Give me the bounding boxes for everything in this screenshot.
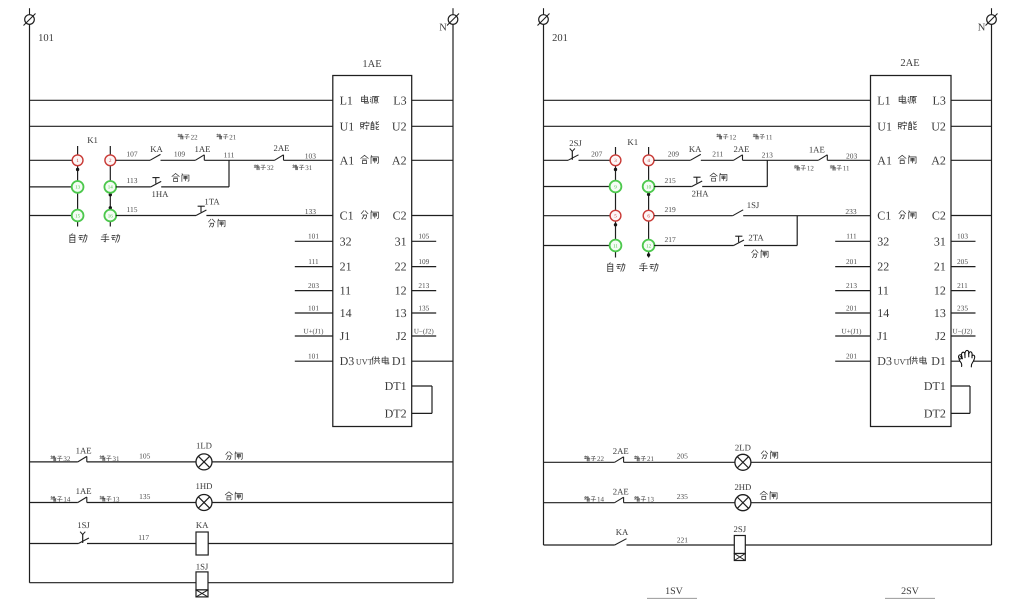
svg-text:U1: U1 bbox=[340, 119, 355, 133]
svg-text:1HA: 1HA bbox=[152, 189, 170, 199]
K1 contact 13 (green) bbox=[72, 181, 84, 193]
svg-text:A1: A1 bbox=[877, 153, 892, 167]
svg-text:J1: J1 bbox=[340, 329, 351, 343]
label 2AE contact right bbox=[734, 144, 750, 154]
svg-text:101: 101 bbox=[38, 33, 54, 44]
svg-text:16: 16 bbox=[108, 213, 114, 219]
label 1HA bbox=[152, 189, 170, 199]
svg-text:KA: KA bbox=[196, 520, 209, 530]
svg-text:15: 15 bbox=[75, 213, 81, 219]
contact 2AE aux (row A1) bbox=[275, 155, 284, 161]
svg-text:14: 14 bbox=[63, 496, 71, 504]
label 端子32 row A1 bbox=[254, 164, 274, 172]
terminal 201 supply bbox=[538, 8, 550, 25]
svg-text:13: 13 bbox=[934, 306, 946, 320]
label 105 rowA bbox=[139, 452, 151, 461]
bracket DT1-DT2 of 2AE bbox=[951, 386, 970, 413]
label 端子13 rowB bbox=[100, 495, 120, 503]
label 133 bbox=[305, 207, 317, 216]
svg-text:31: 31 bbox=[934, 234, 946, 248]
label N right bbox=[978, 23, 986, 34]
svg-text:L3: L3 bbox=[933, 93, 946, 107]
contact 2SJ delayed (row A1 right) bbox=[568, 149, 579, 161]
svg-text:133: 133 bbox=[305, 207, 317, 216]
mouse hand cursor bbox=[959, 350, 975, 367]
stub pin PJ right of 2AE wire U−(J2) bbox=[951, 327, 976, 336]
label 207 bbox=[591, 150, 603, 159]
wire row2 to junction 111 bbox=[161, 186, 229, 188]
svg-text:U+(J1): U+(J1) bbox=[304, 327, 325, 335]
contact 1SJ (row C1 right) bbox=[733, 210, 744, 216]
wire 209 segment bbox=[654, 159, 690, 161]
wire 211 segment bbox=[701, 159, 734, 161]
pushbutton 1TA trip bbox=[196, 206, 206, 215]
svg-text:22: 22 bbox=[877, 260, 889, 274]
label 端子21 rowA right bbox=[634, 455, 654, 463]
svg-text:2SV: 2SV bbox=[901, 586, 920, 597]
svg-text:221: 221 bbox=[677, 536, 689, 545]
contact 1AE aux (row A1 right) bbox=[818, 155, 827, 161]
svg-text:C2: C2 bbox=[932, 209, 946, 223]
K1 contact 6 (red) bbox=[643, 210, 654, 221]
svg-text:101: 101 bbox=[308, 303, 319, 312]
wire L3 to N bbox=[412, 99, 453, 101]
svg-text:135: 135 bbox=[418, 303, 429, 312]
wire U2 to N bbox=[412, 125, 453, 127]
label 端子31 rowA bbox=[100, 455, 120, 463]
svg-text:213: 213 bbox=[762, 150, 774, 159]
wire 111 segment bbox=[204, 159, 274, 161]
stub pin P11 right of 1AE wire 213 bbox=[412, 281, 437, 291]
label KA contact right bbox=[689, 144, 702, 154]
svg-text:201: 201 bbox=[846, 303, 857, 312]
svg-text:DT2: DT2 bbox=[924, 406, 946, 420]
svg-text:11: 11 bbox=[613, 243, 618, 249]
svg-text:107: 107 bbox=[126, 150, 138, 159]
label 分闸 rowA bbox=[226, 452, 242, 460]
wire D1 to N right bbox=[951, 360, 992, 362]
label 117 bbox=[138, 533, 149, 542]
contact KA (relay, row A1) bbox=[150, 154, 161, 160]
label 203 bbox=[846, 152, 858, 161]
label 分闸 rowA right bbox=[761, 451, 777, 459]
svg-text:A2: A2 bbox=[931, 153, 946, 167]
svg-text:L1: L1 bbox=[877, 93, 890, 107]
svg-text:117: 117 bbox=[138, 533, 149, 542]
svg-text:N: N bbox=[978, 23, 986, 34]
label 219 bbox=[664, 205, 676, 214]
wire 113 segment bbox=[116, 186, 151, 188]
bus 101 bbox=[29, 24, 31, 582]
label auto (right) bbox=[608, 263, 625, 272]
pin row C1/分闸/C2 of 1AE bbox=[340, 209, 407, 223]
label 221 bbox=[677, 536, 689, 545]
svg-text:13: 13 bbox=[395, 306, 407, 320]
stub pin P21 right of 1AE wire 109 bbox=[412, 257, 437, 267]
svg-text:11: 11 bbox=[340, 284, 352, 298]
svg-text:13: 13 bbox=[647, 496, 655, 504]
wire junction drop to 2TA bbox=[796, 216, 798, 246]
svg-text:22: 22 bbox=[395, 260, 407, 274]
svg-text:DT2: DT2 bbox=[385, 406, 407, 420]
label 端子22 bbox=[178, 133, 198, 141]
lamp 2LD bbox=[735, 454, 751, 470]
contact 1AE aux lamp row B bbox=[78, 497, 87, 503]
wire U2 to N right bbox=[951, 125, 992, 127]
svg-text:D1: D1 bbox=[931, 354, 946, 368]
pin row C1/分闸/C2 of 2AE bbox=[877, 209, 946, 223]
pin row 11/12 of 2AE bbox=[877, 284, 946, 298]
svg-text:135: 135 bbox=[139, 492, 151, 501]
svg-text:2HD: 2HD bbox=[734, 482, 751, 492]
svg-text:K1: K1 bbox=[627, 137, 638, 147]
stub pin P21 left of 1AE wire 111 bbox=[295, 257, 333, 267]
svg-text:32: 32 bbox=[63, 455, 71, 463]
bus 201 bbox=[543, 24, 545, 545]
svg-text:U1: U1 bbox=[877, 119, 892, 133]
pin row 32/31 of 2AE bbox=[877, 234, 946, 248]
wire lamp row 1HD bbox=[30, 502, 454, 504]
wire 213 segment bbox=[743, 159, 819, 161]
label 135 rowB bbox=[139, 492, 151, 501]
svg-text:111: 111 bbox=[846, 232, 857, 241]
svg-text:22: 22 bbox=[597, 455, 605, 463]
svg-text:UVT: UVT bbox=[894, 357, 911, 366]
svg-text:2HA: 2HA bbox=[692, 189, 710, 199]
svg-text:10: 10 bbox=[646, 184, 652, 190]
svg-text:12: 12 bbox=[807, 165, 815, 173]
label 115 bbox=[127, 205, 138, 214]
wire 207 segment bbox=[579, 159, 611, 161]
wire 107 segment bbox=[116, 159, 150, 161]
wire L1 feed from bus 101 bbox=[30, 99, 333, 101]
svg-text:211: 211 bbox=[957, 281, 968, 290]
svg-text:205: 205 bbox=[957, 257, 968, 266]
K1 contact 4 (red) bbox=[643, 155, 654, 166]
K1 contact 5 (red) bbox=[610, 210, 621, 221]
label block 2AE bbox=[900, 58, 919, 69]
label 2SJ coil bbox=[734, 524, 747, 534]
svg-text:101: 101 bbox=[308, 232, 319, 241]
pin row L1/电源/L3 of 2AE bbox=[877, 93, 946, 107]
svg-text:12: 12 bbox=[646, 243, 652, 249]
svg-text:207: 207 bbox=[591, 150, 603, 159]
label 213 bbox=[762, 150, 774, 159]
svg-text:1TA: 1TA bbox=[204, 197, 220, 207]
label KA rowC right bbox=[616, 527, 629, 537]
wire 215 segment bbox=[654, 186, 692, 188]
svg-text:14: 14 bbox=[877, 306, 889, 320]
wire 115 segment bbox=[116, 215, 196, 217]
K1 contact 2 (red) bbox=[105, 155, 116, 166]
svg-text:217: 217 bbox=[664, 235, 676, 244]
svg-text:1SJ: 1SJ bbox=[77, 520, 90, 530]
svg-text:2SJ: 2SJ bbox=[569, 138, 582, 148]
label 1AE contact bbox=[195, 144, 211, 154]
block U2AE outline bbox=[871, 76, 952, 427]
label 端子31 row A1 bbox=[293, 164, 313, 172]
svg-text:201: 201 bbox=[846, 257, 857, 266]
stub pin PD left of 1AE wire 101 bbox=[295, 352, 333, 362]
svg-text:21: 21 bbox=[340, 260, 352, 274]
svg-text:213: 213 bbox=[846, 281, 857, 290]
pushbutton 2HA close bbox=[692, 177, 702, 186]
label 合闸 row2 bbox=[172, 173, 189, 181]
svg-text:1AE: 1AE bbox=[362, 59, 381, 70]
pin row U1/贮能/U2 of 2AE bbox=[877, 119, 946, 133]
selector switch K1 label (right) bbox=[627, 137, 638, 147]
svg-text:11: 11 bbox=[877, 284, 889, 298]
wire 233 segment to C1 bbox=[743, 215, 870, 217]
K1 contact 1 (red) bbox=[72, 155, 83, 166]
svg-text:14: 14 bbox=[108, 185, 114, 191]
svg-text:109: 109 bbox=[174, 150, 186, 159]
svg-text:KA: KA bbox=[616, 527, 629, 537]
K1 column auto vertical (right) bbox=[615, 147, 617, 258]
K1 contact 14 (green) bbox=[104, 181, 116, 193]
label 端子14 rowB right bbox=[584, 496, 604, 504]
svg-text:11: 11 bbox=[843, 165, 850, 173]
svg-text:N: N bbox=[439, 23, 447, 34]
svg-text:2SJ: 2SJ bbox=[734, 524, 747, 534]
K1 column manual vertical (right) bbox=[648, 147, 650, 258]
svg-text:14: 14 bbox=[340, 306, 352, 320]
svg-text:2AE: 2AE bbox=[900, 58, 919, 69]
svg-text:235: 235 bbox=[957, 303, 968, 312]
K1 contact 9 (green) bbox=[610, 181, 622, 193]
svg-text:13: 13 bbox=[113, 495, 121, 503]
stub pin P21 left of 2AE wire 201 bbox=[835, 257, 870, 267]
K1 contact 12 (green) bbox=[643, 240, 655, 252]
svg-text:K1: K1 bbox=[87, 135, 98, 145]
label 合闸 rowB right bbox=[760, 491, 777, 499]
svg-text:12: 12 bbox=[934, 284, 946, 298]
svg-text:235: 235 bbox=[677, 492, 689, 501]
lamp 2HD bbox=[735, 495, 751, 511]
pin row D3/UVT供电/D1 of 2AE bbox=[877, 354, 946, 368]
wire bus to K1 contact row4 right bbox=[544, 245, 610, 247]
label 端子11 below right bbox=[830, 165, 850, 173]
contact 2AE aux lamp row A right bbox=[615, 457, 624, 463]
wire relay row KA bbox=[30, 543, 454, 545]
svg-text:103: 103 bbox=[305, 152, 317, 161]
bus N left bbox=[452, 24, 454, 582]
svg-text:KA: KA bbox=[150, 144, 163, 154]
lamp 1LD bbox=[196, 454, 212, 470]
pin DT2 of 2AE bbox=[924, 406, 946, 420]
contact KA (row C right) bbox=[615, 539, 627, 545]
svg-text:21: 21 bbox=[647, 455, 655, 463]
svg-text:1SJ: 1SJ bbox=[196, 562, 209, 572]
lamp 1HD bbox=[196, 495, 212, 511]
svg-text:A1: A1 bbox=[340, 153, 355, 167]
label 端子12 rowA1 right bbox=[717, 133, 737, 141]
pin row D3/UVT供电/D1 of 1AE bbox=[340, 354, 407, 368]
label 1SV sheet link bbox=[647, 586, 697, 598]
svg-text:111: 111 bbox=[308, 257, 319, 266]
pin row A1/合闸/A2 of 1AE bbox=[340, 153, 407, 167]
wire junction 213 drop to 2HA bbox=[766, 160, 768, 186]
label 2TA bbox=[748, 233, 764, 243]
wire bus to K1 contact 13 bbox=[30, 186, 72, 188]
stub pin P32 right of 2AE wire 103 bbox=[951, 232, 976, 242]
svg-text:22: 22 bbox=[191, 133, 199, 141]
terminal 101 supply bbox=[24, 8, 36, 25]
wire 203 segment to A1 bbox=[827, 159, 870, 161]
label 分闸 row4 right bbox=[752, 250, 768, 258]
junction dot K1 manual a (left) bbox=[109, 193, 112, 196]
label 2AE rowB right bbox=[613, 486, 629, 496]
svg-text:211: 211 bbox=[712, 150, 723, 159]
svg-text:1AE: 1AE bbox=[76, 446, 92, 456]
svg-text:D3: D3 bbox=[877, 354, 892, 368]
wire A2 to N right bbox=[951, 159, 992, 161]
svg-text:U2: U2 bbox=[931, 119, 946, 133]
svg-text:1SV: 1SV bbox=[665, 586, 684, 597]
svg-text:J2: J2 bbox=[935, 329, 946, 343]
pin DT1 of 1AE bbox=[385, 379, 407, 393]
pin row 32/31 of 1AE bbox=[340, 234, 407, 248]
stub pin PD left of 2AE wire 201 bbox=[835, 352, 870, 362]
label 107 bbox=[126, 150, 138, 159]
K1 contact 11 (green) bbox=[610, 240, 622, 252]
pin row 11/12 of 1AE bbox=[340, 284, 407, 298]
svg-text:1SJ: 1SJ bbox=[747, 200, 760, 210]
label 2SV sheet link bbox=[885, 586, 935, 598]
wire lamp row 2LD bbox=[544, 461, 992, 463]
svg-text:1LD: 1LD bbox=[196, 441, 212, 451]
contact 2AE aux lamp row B right bbox=[615, 497, 624, 503]
wire 133 segment to C1 bbox=[206, 215, 332, 217]
K1 column auto vertical (left) bbox=[77, 146, 79, 227]
svg-text:J1: J1 bbox=[877, 329, 888, 343]
label 端子11 rowA1 right bbox=[753, 133, 773, 141]
stub pin PJ left of 1AE wire U+(J1) bbox=[295, 327, 333, 336]
pin DT1 of 2AE bbox=[924, 379, 946, 393]
svg-text:C1: C1 bbox=[340, 209, 354, 223]
svg-text:C1: C1 bbox=[877, 209, 891, 223]
label 端子12 below right bbox=[794, 165, 814, 173]
svg-text:DT1: DT1 bbox=[385, 379, 407, 393]
wire lamp row 2HD bbox=[544, 502, 992, 504]
wire L3 to N right bbox=[951, 99, 992, 101]
svg-text:32: 32 bbox=[340, 234, 352, 248]
bracket DT1-DT2 of 1AE bbox=[412, 386, 432, 413]
svg-text:2AE: 2AE bbox=[613, 446, 629, 456]
wire bus to 2SJ contact bbox=[544, 159, 569, 161]
label 1SJ contact bbox=[77, 520, 90, 530]
wire 219 segment bbox=[654, 215, 733, 217]
svg-text:L3: L3 bbox=[393, 93, 406, 107]
junction dot K1 manual b (left) bbox=[109, 206, 112, 209]
label 205 rowA right bbox=[677, 452, 689, 461]
wire bus to K1 contact 1 bbox=[30, 159, 73, 161]
terminal N right bbox=[986, 8, 998, 25]
pin row 14/13 of 2AE bbox=[877, 306, 946, 320]
label 217 bbox=[664, 235, 676, 244]
svg-text:219: 219 bbox=[664, 205, 676, 214]
svg-text:2AE: 2AE bbox=[613, 486, 629, 496]
svg-text:31: 31 bbox=[305, 164, 313, 172]
svg-text:A2: A2 bbox=[392, 153, 407, 167]
svg-text:1AE: 1AE bbox=[195, 144, 211, 154]
relay coil KA bbox=[196, 532, 208, 555]
svg-text:11: 11 bbox=[766, 133, 773, 141]
label 109 bbox=[174, 150, 186, 159]
svg-text:C2: C2 bbox=[393, 209, 407, 223]
label 1AE contact right bbox=[809, 145, 825, 155]
label N left bbox=[439, 23, 447, 34]
svg-text:J2: J2 bbox=[396, 329, 407, 343]
label 2LD bbox=[735, 443, 751, 453]
label 2HA bbox=[692, 189, 710, 199]
svg-text:2AE: 2AE bbox=[274, 143, 290, 153]
svg-text:213: 213 bbox=[418, 281, 429, 290]
contact 2AE aux (row A1 right) bbox=[734, 155, 743, 161]
wire row2 to junction 213 bbox=[702, 186, 767, 188]
svg-text:113: 113 bbox=[127, 176, 138, 185]
svg-text:DT1: DT1 bbox=[924, 379, 946, 393]
label 215 bbox=[664, 176, 676, 185]
label 235 rowB right bbox=[677, 492, 689, 501]
label 1TA bbox=[204, 197, 220, 207]
pin row L1/电源/L3 of 1AE bbox=[340, 93, 407, 107]
junction dot K1 manual a (right) bbox=[647, 193, 650, 196]
svg-text:31: 31 bbox=[395, 234, 407, 248]
terminal N left bbox=[447, 8, 459, 25]
svg-text:111: 111 bbox=[224, 150, 235, 159]
label manual (right) bbox=[639, 263, 658, 271]
stub pin P14 right of 1AE wire 135 bbox=[412, 303, 437, 313]
svg-text:12: 12 bbox=[729, 133, 737, 141]
label 端子13 rowB right bbox=[634, 496, 654, 504]
pin row 21/22 of 1AE bbox=[340, 260, 407, 274]
svg-text:1AE: 1AE bbox=[76, 486, 92, 496]
pushbutton 1HA close bbox=[151, 178, 161, 187]
svg-text:203: 203 bbox=[846, 152, 858, 161]
pin row U1/贮能/U2 of 1AE bbox=[340, 119, 407, 133]
svg-text:105: 105 bbox=[418, 232, 429, 241]
svg-text:2AE: 2AE bbox=[734, 144, 750, 154]
svg-text:U−(J2): U−(J2) bbox=[953, 327, 974, 335]
K1 contact 15 (green) bbox=[72, 210, 84, 222]
wire bus to K1 contact row3 right bbox=[544, 215, 611, 217]
svg-text:D3: D3 bbox=[340, 354, 355, 368]
svg-text:2LD: 2LD bbox=[735, 443, 751, 453]
label 合闸 rowB bbox=[225, 492, 242, 500]
pin row 22/21 of 2AE bbox=[877, 260, 946, 274]
svg-text:1AE: 1AE bbox=[809, 145, 825, 155]
wire 109 segment bbox=[161, 159, 196, 161]
pushbutton 2TA trip bbox=[734, 236, 744, 245]
svg-text:109: 109 bbox=[418, 257, 429, 266]
wire time relay row 2SJ bbox=[544, 544, 992, 546]
pin row A1/合闸/A2 of 2AE bbox=[877, 153, 946, 167]
label 1LD bbox=[196, 441, 212, 451]
junction dot K1 auto b (right) bbox=[614, 223, 617, 226]
stub pin P14 right of 2AE wire 235 bbox=[951, 303, 976, 313]
label 1AE rowB bbox=[76, 486, 92, 496]
pin row J1/J2 of 2AE bbox=[877, 329, 946, 343]
label 1AE rowA bbox=[76, 446, 92, 456]
svg-text:215: 215 bbox=[664, 176, 676, 185]
stub pin PJ left of 2AE wire U+(J1) bbox=[835, 327, 870, 336]
label 233 bbox=[845, 207, 857, 216]
label 分闸 row3 bbox=[209, 219, 225, 227]
svg-text:D1: D1 bbox=[392, 354, 407, 368]
time relay coil 2SJ bbox=[734, 536, 745, 561]
junction dot K1 auto a (right) bbox=[614, 168, 617, 171]
